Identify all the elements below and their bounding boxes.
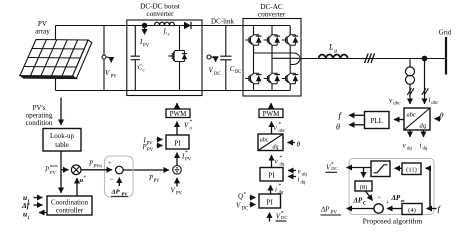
wire AC output line: [300, 58, 446, 60]
label PLL: [370, 117, 383, 125]
svg-text:+: +: [386, 200, 390, 207]
svg-text:ΔP: ΔP: [353, 197, 363, 205]
svg-text:PLL: PLL: [370, 117, 383, 125]
label V*_o: [184, 119, 193, 132]
slash marks i_abc: [422, 88, 429, 95]
transistor S3: [282, 35, 298, 46]
label minus: [110, 175, 114, 184]
svg-text:Look-up: Look-up: [50, 132, 75, 140]
label delta f: [21, 201, 31, 210]
wire dP_PV output: [347, 208, 374, 210]
svg-text:i: i: [420, 142, 422, 150]
svg-text:P: P: [148, 175, 153, 182]
svg-text:*: *: [279, 183, 282, 189]
svg-text:P: P: [44, 167, 49, 174]
wire PWM to converter: [270, 103, 272, 109]
label v*_dq: [275, 155, 285, 168]
svg-text:i: i: [298, 176, 300, 184]
block abc/dq transform (measurement): [404, 108, 430, 130]
voltage probe V_PV: [102, 26, 111, 91]
svg-text:ΔP: ΔP: [391, 194, 401, 202]
svg-text:i: i: [275, 186, 277, 194]
block coordination controller: [47, 196, 92, 215]
label P_PVmax: [44, 163, 59, 175]
svg-text:PVn: PVn: [93, 165, 103, 170]
box DC-AC converter: [243, 19, 301, 97]
inductor Lc: [155, 22, 175, 25]
label u_j: [23, 193, 30, 205]
label I*_PV: [181, 150, 192, 163]
label u*: [80, 176, 87, 184]
svg-text:u: u: [23, 210, 27, 219]
wire DC+ top rail: [56, 25, 291, 27]
svg-text:θ: θ: [297, 140, 301, 149]
svg-text:dq: dq: [273, 145, 279, 151]
svg-text:θ: θ: [440, 110, 444, 119]
block look-up table: [43, 129, 81, 152]
label DC-AC converter: [258, 3, 286, 18]
container proposed algorithm: [349, 159, 434, 215]
wire I_PV input: [157, 139, 163, 141]
diode D boost: [184, 22, 191, 29]
wire branch to eq8: [363, 168, 365, 178]
transistor Q boost IGBT: [168, 51, 187, 62]
transistor S6: [282, 73, 298, 84]
svg-text:PV: PV: [154, 179, 161, 184]
wire v_dq out: [409, 130, 411, 137]
label plus: [108, 160, 112, 167]
svg-text:PV: PV: [185, 158, 192, 163]
capacitor C_DC: [220, 26, 231, 91]
wire dP_PV to summing: [118, 178, 120, 187]
svg-text:dq: dq: [420, 123, 427, 130]
label dP_C: [353, 197, 368, 207]
svg-text:(11): (11): [406, 167, 417, 174]
svg-text:abc: abc: [279, 129, 287, 134]
block equation 4: [402, 204, 422, 215]
block equation 8: [355, 181, 372, 191]
wire phase B tap: [272, 57, 300, 59]
label PV's operating condition: [26, 104, 53, 127]
wire condition to lookup: [60, 98, 62, 126]
svg-text:max: max: [50, 163, 59, 168]
wire PWM to boost: [176, 103, 178, 109]
wire v*abc to PWM: [271, 122, 273, 135]
wire u_i output: [39, 212, 47, 214]
svg-text:Grid: Grid: [439, 30, 452, 37]
label dP_m: [391, 194, 406, 203]
label V_DC input: [236, 202, 248, 212]
svg-text:condition: condition: [26, 119, 53, 127]
wire i_abc measurement: [424, 59, 426, 105]
svg-text:−: −: [377, 193, 381, 202]
wire inverter leg B: [271, 26, 273, 91]
label V_DC: [209, 67, 221, 78]
three-phase slash marks on AC line: [365, 54, 375, 64]
svg-text:PV: PV: [176, 192, 183, 197]
PV array panel: [20, 40, 92, 79]
transistor S2: [264, 35, 280, 46]
label P_PV wire: [148, 175, 160, 184]
wire divider to PI: [176, 153, 178, 166]
transformer: [406, 59, 415, 85]
wire v_dq input: [288, 170, 296, 172]
capacitor Cc: [131, 26, 140, 91]
divider circle: [173, 166, 182, 175]
svg-text:V: V: [209, 67, 214, 75]
wire u* to multiplier: [76, 178, 78, 196]
label theta 2: [297, 140, 301, 149]
svg-text:L: L: [163, 29, 168, 36]
svg-text:P: P: [142, 144, 147, 151]
multiplier circle: [71, 165, 81, 175]
svg-text:ΔP: ΔP: [111, 189, 121, 196]
svg-text:dq: dq: [280, 163, 285, 168]
box DC-DC boost converter: [127, 20, 202, 96]
wire f output of PLL: [349, 114, 365, 116]
wire P_PV input: [157, 145, 163, 147]
svg-text:PV: PV: [147, 148, 154, 153]
svg-text:dq: dq: [301, 181, 306, 186]
label abc (inverse): [260, 138, 269, 144]
label Grid: [439, 30, 452, 37]
svg-text:table: table: [55, 141, 69, 149]
svg-text:i: i: [429, 95, 431, 104]
block PI current controller: [260, 168, 283, 182]
transistor S1: [245, 35, 261, 46]
label i_dq: [420, 142, 428, 152]
wire theta into transform: [435, 118, 442, 120]
label Q*: [238, 192, 247, 201]
svg-text:PI: PI: [268, 172, 275, 180]
wire theta output of PLL: [349, 124, 365, 126]
wire Q* input: [250, 197, 256, 199]
transistor S4: [245, 73, 261, 84]
svg-text:DC: DC: [242, 207, 249, 212]
svg-text:g: g: [334, 48, 337, 54]
svg-text:P: P: [88, 161, 93, 168]
wire transform to PLL: [394, 119, 404, 121]
svg-text:Coordination: Coordination: [51, 198, 88, 206]
wire PV loop vertical: [55, 26, 57, 91]
block PLL: [365, 112, 390, 129]
wire inverter leg A: [253, 26, 255, 91]
svg-text:*: *: [244, 192, 247, 198]
transistor S5: [264, 73, 280, 84]
label minus sum: [377, 193, 381, 202]
svg-text:converter: converter: [146, 10, 174, 18]
block equation 11: [402, 163, 421, 175]
label v_dq input: [298, 168, 308, 178]
wire u_j input: [34, 197, 43, 199]
label I_PV input: [143, 138, 154, 147]
label dP_PV output: [320, 206, 341, 216]
svg-text:PI: PI: [266, 198, 273, 206]
svg-text:PWM: PWM: [170, 110, 188, 118]
label theta: [440, 110, 444, 119]
label i_abc: [429, 95, 440, 106]
wire f feedback up to eq11: [426, 168, 431, 208]
svg-text:PI: PI: [174, 139, 181, 147]
svg-text:L: L: [328, 43, 334, 52]
label P_PVn: [88, 161, 102, 170]
label C_DC: [230, 66, 241, 75]
svg-text:V: V: [171, 187, 176, 195]
wire inverter leg C: [289, 26, 291, 91]
svg-text:Q: Q: [238, 193, 243, 201]
wire eq11 to saturation: [395, 167, 403, 169]
svg-text:abc: abc: [431, 101, 439, 106]
label abc (transform): [407, 112, 417, 119]
inductor Lg: [319, 54, 348, 58]
label theta PLL: [336, 123, 340, 132]
wire P_PVn to summing: [81, 169, 112, 171]
label f: [339, 110, 343, 120]
label PV array: [35, 20, 50, 36]
wire V_DC input: [250, 204, 256, 206]
svg-text:dq: dq: [407, 147, 412, 152]
block saturation limiter: [371, 161, 390, 177]
svg-text:PV: PV: [147, 142, 154, 147]
svg-text:PV: PV: [143, 43, 150, 48]
rounded container for summing junction: [105, 156, 134, 197]
wire V*_DC output: [347, 167, 372, 169]
block PWM inverter: [259, 109, 283, 118]
label Cc: [138, 65, 146, 74]
label f input: [438, 204, 442, 214]
svg-text:θ: θ: [336, 123, 340, 132]
wire theta into inverse transform: [288, 142, 296, 144]
svg-text:PV: PV: [111, 75, 118, 80]
label I_PV: [139, 39, 150, 48]
wire phase A tap: [254, 53, 301, 58]
svg-text:dq: dq: [423, 147, 428, 152]
node AC line junction: [422, 56, 427, 61]
label Lc: [163, 29, 171, 38]
wire V*o to PWM: [176, 122, 178, 136]
transistor Q boost IGBT leg: [179, 26, 181, 91]
wire v_abc measurement: [409, 84, 411, 104]
label DC-DC boost converter: [140, 3, 180, 18]
svg-text:+: +: [108, 160, 112, 167]
voltage probe V_DC: [207, 55, 216, 62]
wire v*dq: [271, 155, 273, 168]
label i_dq input: [298, 176, 306, 186]
wire DC- bottom rail: [56, 90, 291, 92]
svg-text:PV: PV: [50, 170, 57, 175]
svg-text:DC: DC: [235, 70, 242, 75]
wire phase C tap: [290, 59, 300, 64]
svg-text:PV: PV: [122, 191, 129, 196]
wire P_PV to divider: [123, 169, 169, 171]
label v*_abc: [274, 122, 287, 135]
wire V*_DC reference input: [269, 213, 271, 222]
grid bus bar: [445, 37, 447, 75]
slash marks v_abc: [407, 88, 414, 95]
svg-text:V: V: [236, 202, 241, 210]
svg-text:*: *: [190, 119, 193, 125]
svg-text:DC: DC: [281, 215, 287, 220]
current arrow I_PV: [144, 28, 146, 35]
svg-text:PWM: PWM: [263, 110, 281, 118]
wire eq4 to summing: [387, 208, 402, 210]
label v_dq: [403, 142, 413, 152]
svg-text:*: *: [280, 155, 283, 161]
label Proposed algorithm: [363, 217, 423, 226]
svg-text:Proposed algorithm: Proposed algorithm: [363, 217, 423, 226]
svg-text:converter: converter: [258, 10, 286, 18]
svg-text:DC: DC: [214, 72, 221, 77]
summing junction P ref: [116, 166, 124, 174]
svg-text:*: *: [279, 122, 282, 128]
wire V_PV to divider: [176, 178, 178, 187]
block PI dc voltage controller: [259, 194, 281, 208]
svg-text:DC-link: DC-link: [211, 18, 234, 26]
svg-text:abc: abc: [393, 102, 401, 107]
summing junction algorithm: [374, 204, 383, 213]
label u_i: [23, 210, 30, 222]
label P_PV input: [142, 144, 154, 153]
block PI boost controller: [166, 135, 189, 149]
svg-text:DC: DC: [331, 166, 337, 171]
wire f input: [427, 208, 437, 210]
label v_abc: [389, 96, 401, 107]
svg-text:m: m: [401, 198, 405, 203]
label dP_PV: [111, 189, 129, 197]
node on rail at I_PV tap: [142, 23, 146, 27]
svg-text:*: *: [185, 150, 188, 156]
wire eq8 to summing: [366, 191, 373, 201]
label DC-link: [211, 18, 234, 26]
label plus sum: [386, 200, 390, 207]
label V_PV divider: [171, 187, 183, 197]
wire PI2 to PI1: [270, 185, 272, 194]
svg-text:controller: controller: [56, 206, 84, 214]
label V*_DC ref: [276, 211, 288, 222]
svg-text:dq: dq: [302, 173, 307, 178]
svg-text:−: −: [110, 175, 114, 184]
svg-text:(8): (8): [360, 184, 368, 191]
label dq (inverse): [273, 145, 279, 151]
svg-text:ΔP: ΔP: [320, 206, 330, 214]
label dq (transform): [420, 123, 427, 130]
wire delta f input: [34, 204, 43, 206]
svg-text:abc: abc: [260, 138, 269, 144]
label i*_dq: [275, 183, 284, 196]
wire i_dq input: [288, 176, 296, 178]
wire lookup to coordination: [60, 151, 62, 193]
svg-text:(4): (4): [408, 207, 416, 214]
label Lg: [328, 43, 337, 54]
svg-text:V: V: [184, 122, 189, 130]
wire i_dq out: [423, 130, 425, 137]
label V_PV: [105, 69, 117, 80]
svg-text:array: array: [35, 28, 50, 36]
label V*_DC output: [326, 162, 338, 173]
wire P_PVmax branch to multiplier: [61, 169, 69, 171]
block dq to abc transform: [258, 134, 283, 151]
block PWM boost: [166, 109, 190, 118]
svg-text:abc: abc: [407, 112, 417, 119]
svg-text:V: V: [105, 69, 110, 77]
